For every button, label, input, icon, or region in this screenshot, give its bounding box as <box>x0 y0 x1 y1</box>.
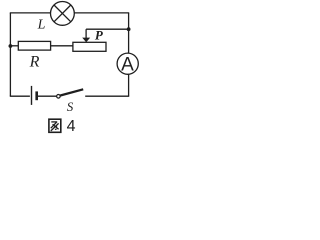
node junction left <box>9 44 13 48</box>
battery cell long plate <box>31 86 33 105</box>
wire wiper vertical <box>85 29 87 38</box>
svg-text:L: L <box>37 18 46 33</box>
svg-text:S: S <box>67 99 74 114</box>
wire right vertical lower <box>128 74 130 96</box>
svg-text:P: P <box>95 28 104 43</box>
wire battery to switch <box>37 95 58 97</box>
wire bottom left segment <box>10 95 30 97</box>
svg-text:4: 4 <box>67 118 76 135</box>
rheostat P wiper arrow <box>82 38 90 43</box>
wire top left segment <box>10 12 51 14</box>
switch S lever <box>60 89 83 95</box>
wire resistor to rheostat <box>51 45 73 47</box>
wire left vertical <box>9 13 11 96</box>
battery cell short plate <box>35 91 38 100</box>
rheostat P body <box>73 42 106 51</box>
svg-text:R: R <box>29 53 40 70</box>
wire middle left to resistor <box>10 45 18 47</box>
caption figure glyph tu <box>49 119 61 132</box>
resistor R <box>18 41 50 50</box>
svg-text:A: A <box>121 55 134 76</box>
wire wiper horizontal <box>86 28 129 30</box>
node junction right <box>127 27 131 31</box>
wire right vertical upper <box>128 13 130 53</box>
wire bottom right segment <box>85 95 129 97</box>
wire top right segment <box>74 12 129 14</box>
lamp L <box>51 2 75 26</box>
switch S pivot <box>57 95 61 99</box>
ammeter A <box>117 53 138 75</box>
